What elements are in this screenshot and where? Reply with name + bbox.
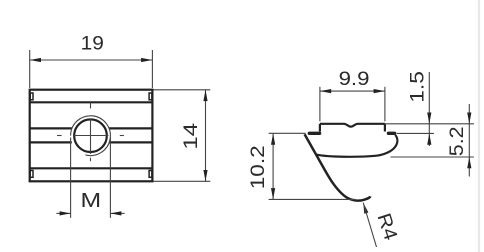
svg-text:10.2: 10.2 bbox=[248, 145, 269, 189]
notch bottom-left bbox=[30, 171, 33, 178]
svg-text:14: 14 bbox=[180, 123, 202, 150]
thread hole circle bbox=[74, 119, 107, 152]
ref line wing bottom right bbox=[397, 132, 434, 134]
dim M extension right bbox=[109, 138, 111, 218]
svg-text:R4: R4 bbox=[373, 211, 401, 243]
dim 19 arrow left bbox=[30, 58, 41, 62]
centerline vertical bbox=[90, 102, 92, 108]
dim 19 arrow right bbox=[141, 58, 152, 62]
thread crest arc bbox=[71, 116, 111, 156]
left wing bbox=[309, 132, 319, 135]
right wing bbox=[388, 132, 394, 135]
dim M arrow left bbox=[60, 211, 71, 215]
leaf spring bbox=[305, 134, 371, 200]
dim 14 arrow bottom bbox=[203, 170, 207, 181]
dim 14 arrow top bbox=[203, 90, 207, 101]
svg-text:5.2: 5.2 bbox=[447, 126, 468, 156]
nut body outline bbox=[30, 90, 153, 182]
dim 10.2 line bbox=[272, 134, 274, 200]
notch bottom-right bbox=[149, 171, 152, 178]
dim M arrow right bbox=[110, 211, 121, 215]
slot edge upper bbox=[30, 127, 72, 129]
edge line lower bbox=[30, 167, 153, 169]
dim 14 line bbox=[205, 90, 207, 182]
ref line body bottom right bbox=[391, 156, 474, 158]
centerline horizontal bbox=[57, 135, 62, 137]
page edge line bbox=[478, 0, 480, 252]
dim 5.2 arrow upper bbox=[467, 113, 471, 124]
svg-text:9.9: 9.9 bbox=[339, 68, 370, 89]
dim 5.2 arrow lower bbox=[467, 157, 471, 168]
dim M line right tail bbox=[110, 212, 124, 214]
dim M extension left bbox=[70, 138, 72, 218]
dim 5.2 line bbox=[468, 104, 470, 177]
dim 10.2 arrow bottom bbox=[271, 188, 275, 199]
dim 1.5 arrow lower bbox=[427, 133, 431, 144]
dim 1.5 arrow upper bbox=[427, 113, 431, 124]
dim 10.2 arrow top bbox=[271, 134, 275, 145]
svg-text:M: M bbox=[80, 189, 101, 211]
dim 9.9 extension left bbox=[319, 87, 321, 122]
leader R4 arrow bbox=[363, 203, 368, 214]
ref line top surface right bbox=[385, 123, 474, 125]
ref line spring bottom left bbox=[269, 198, 356, 200]
body right side and bottom arc bbox=[316, 135, 397, 157]
dim 1.5 line bbox=[428, 72, 430, 146]
body left step bbox=[319, 124, 321, 132]
notch top-right bbox=[149, 93, 152, 100]
dim 9.9 line bbox=[320, 90, 385, 92]
dim 14 extension top bbox=[154, 89, 211, 91]
dim 19 extension left bbox=[29, 50, 31, 88]
ref line wing bottom left bbox=[269, 132, 306, 134]
dim 19 line bbox=[30, 59, 153, 61]
dim 9.9 arrow left bbox=[320, 89, 331, 93]
notch top-left bbox=[30, 93, 33, 100]
dim M line left tail bbox=[56, 212, 70, 214]
dim 9.9 extension right bbox=[384, 87, 386, 122]
slot edge lower bbox=[30, 141, 72, 143]
dim 19 extension right bbox=[151, 50, 153, 88]
body right step bbox=[384, 124, 386, 132]
leader R4 line bbox=[363, 203, 376, 247]
edge line upper bbox=[30, 101, 153, 103]
svg-text:1.5: 1.5 bbox=[407, 71, 428, 103]
svg-text:19: 19 bbox=[81, 33, 104, 54]
dim 9.9 arrow right bbox=[374, 89, 385, 93]
dim 14 extension bottom bbox=[154, 180, 211, 182]
body top surface with V-notch bbox=[320, 124, 385, 127]
